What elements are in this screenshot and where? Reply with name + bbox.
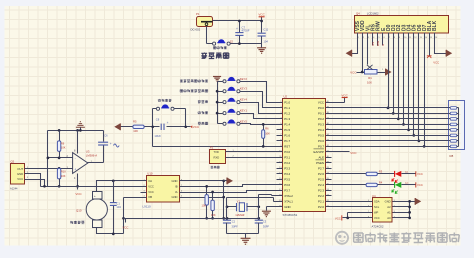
wire crystal leads xyxy=(227,206,259,208)
svg-text:KEY4: KEY4 xyxy=(240,98,248,102)
wire P0.4 row xyxy=(332,129,449,131)
ground symbol (op-amp rail, inverted) xyxy=(76,122,85,127)
svg-text:2: 2 xyxy=(363,37,364,39)
label key-name (chinese) xyxy=(180,79,183,82)
wire P0.6 row xyxy=(332,140,449,142)
wire VSS to gnd arrow xyxy=(352,39,358,54)
wire IB to P3.6 xyxy=(185,185,277,187)
svg-text:R8: R8 xyxy=(450,154,454,158)
LED D1 red xyxy=(394,171,396,177)
svg-text:U3: U3 xyxy=(86,150,90,154)
wire P0.5 row xyxy=(332,135,449,137)
svg-text:4: 4 xyxy=(373,37,374,39)
power port VCC (top rail) xyxy=(259,16,265,18)
wire KEY5 to P1.4 xyxy=(240,124,277,125)
power port GND arrow (U10) xyxy=(227,178,233,185)
svg-text:P3.0: P3.0 xyxy=(284,150,290,154)
wire Q2 GND down to rail xyxy=(25,174,41,187)
resistor R8-5 xyxy=(450,129,457,132)
resistor R8-4 xyxy=(450,123,457,126)
wire RST net to MCU pin 9 xyxy=(153,146,277,148)
svg-text:P0.6: P0.6 xyxy=(318,139,324,143)
svg-text:STC89C51: STC89C51 xyxy=(283,213,298,217)
wire P0.7 row xyxy=(332,146,449,148)
resistor R8-6 xyxy=(450,134,457,137)
svg-text:KEY3: KEY3 xyxy=(240,87,248,91)
svg-text:VCC: VCC xyxy=(417,183,423,187)
svg-text:P1.7: P1.7 xyxy=(284,139,290,143)
svg-text:EA/VPP: EA/VPP xyxy=(314,150,325,154)
svg-text:VCC: VCC xyxy=(433,61,439,65)
wire VL to wiper xyxy=(367,39,369,65)
speaker glyph xyxy=(114,144,120,147)
svg-text:LM386-A: LM386-A xyxy=(86,154,97,158)
svg-text:P3.2: P3.2 xyxy=(284,161,290,165)
wire GND long rail xyxy=(124,218,259,220)
pushbutton reset (display countdown key) xyxy=(156,107,159,110)
wire motor bottom to OB xyxy=(97,198,141,234)
svg-text:L9110: L9110 xyxy=(143,204,151,208)
wire P0.0 row xyxy=(332,107,449,109)
wire R/W stub xyxy=(377,39,379,46)
svg-text:BLK: BLK xyxy=(432,20,438,31)
resistor R10 10K xyxy=(57,168,60,179)
wire RS stub xyxy=(372,39,374,46)
wire P2.6 to R3 xyxy=(332,173,367,175)
wire analog left rail xyxy=(48,131,73,187)
wire RXD to P3.1 xyxy=(226,157,277,159)
svg-text:Q10: Q10 xyxy=(76,209,82,213)
label 直流电机 xyxy=(70,221,73,224)
capacitor C10 4.7UF xyxy=(98,142,108,145)
MCU pin stubs xyxy=(277,103,332,207)
motor Q10 DC motor xyxy=(86,199,107,220)
crystal Y1 12MHZ xyxy=(239,203,244,212)
pushbutton KEY2 xyxy=(223,80,226,83)
svg-text:P1.1: P1.1 xyxy=(284,106,290,110)
power port VCC (U4) xyxy=(341,215,343,220)
svg-text:+: + xyxy=(236,27,238,31)
svg-text:P3.3: P3.3 xyxy=(284,166,290,170)
svg-text:P1: P1 xyxy=(196,12,200,16)
svg-text:AT24C02: AT24C02 xyxy=(372,225,384,229)
ground symbol (keys bus) xyxy=(213,77,221,82)
pushbutton KEY5 xyxy=(223,122,226,125)
label 显示倒计时键 xyxy=(158,99,161,102)
wire U4 A0-A2+GND to ground xyxy=(399,202,416,218)
svg-text:P3.1: P3.1 xyxy=(284,155,290,159)
wire R3 to D1 xyxy=(378,173,395,175)
wire P0.3 row xyxy=(332,124,449,126)
svg-text:XTAL2: XTAL2 xyxy=(284,194,293,198)
pushbutton KEY4 xyxy=(223,101,226,104)
svg-text:PSEN: PSEN xyxy=(316,161,324,165)
svg-text:P2.6: P2.6 xyxy=(318,172,324,176)
power port GND arrow (U4) xyxy=(415,198,421,205)
wire KEY4 to P1.2 xyxy=(240,103,277,114)
switch S2 (power toggle) xyxy=(213,42,216,45)
svg-text:10K: 10K xyxy=(367,80,372,84)
svg-text:VCC: VCC xyxy=(318,100,324,104)
resistor R8-7 xyxy=(450,140,457,143)
svg-text:3: 3 xyxy=(368,37,369,39)
svg-text:VCC: VCC xyxy=(17,177,23,181)
wire pot right to arrow xyxy=(378,72,387,74)
capacitor C11 104 xyxy=(258,33,266,36)
watermark text xyxy=(354,233,460,243)
svg-text:RST: RST xyxy=(284,144,290,148)
wire D1 to P0.1 xyxy=(393,39,395,114)
resistor R8-8 xyxy=(450,145,457,148)
svg-text:KEY1: KEY1 xyxy=(240,109,248,113)
svg-text:P3.6: P3.6 xyxy=(284,183,290,187)
wire E stub xyxy=(382,39,384,46)
ground symbol (crystal) xyxy=(241,238,251,244)
wire IA to P3.7 xyxy=(185,191,277,193)
wire D5 to P0.5 xyxy=(413,39,415,136)
svg-text:P1.3: P1.3 xyxy=(284,117,290,121)
svg-text:15: 15 xyxy=(430,37,432,39)
wire VIN from jack to C7/C11 top rail xyxy=(213,17,262,33)
capacitor C7 470UF electrolytic xyxy=(235,33,243,36)
EEPROM U4 AT24C02 xyxy=(373,198,393,223)
U4 pin stubs xyxy=(367,202,399,218)
wire TXD to P3.0 xyxy=(226,151,277,153)
resistor R3 xyxy=(366,172,377,175)
svg-text:LCD1602: LCD1602 xyxy=(367,12,379,16)
svg-text:VCC: VCC xyxy=(350,151,357,155)
resistor R5 10K xyxy=(133,125,144,128)
svg-text:P2.5: P2.5 xyxy=(318,177,324,181)
wire D2 to P0.2 xyxy=(398,39,400,119)
pushbutton KEY1 xyxy=(223,112,226,115)
wire D6 to P0.6 xyxy=(418,39,420,141)
svg-text:12: 12 xyxy=(414,37,416,39)
svg-text:+: + xyxy=(167,121,169,125)
svg-text:P2.4: P2.4 xyxy=(318,183,324,187)
connector P2 serial download header xyxy=(210,150,226,164)
svg-text:9: 9 xyxy=(399,37,400,39)
wire D3 to P0.3 xyxy=(403,39,405,125)
label key-name (chinese) xyxy=(198,100,201,103)
wire Q2 OUT to op-amp input 3 xyxy=(25,168,73,170)
wire op-amp pin4 to bottom rail xyxy=(77,174,79,187)
svg-text:+: + xyxy=(74,168,76,172)
svg-text:16: 16 xyxy=(435,37,437,39)
label 电源接口 xyxy=(201,53,207,59)
svg-text:VCC: VCC xyxy=(335,216,341,220)
svg-text:+: + xyxy=(110,142,112,146)
wire op-amp pin8 from VCC rail xyxy=(77,131,79,154)
wire U10 GND to ground arrow xyxy=(185,181,224,219)
wire BLK to gnd arrow xyxy=(435,39,447,54)
capacitor C8 10UF xyxy=(161,124,164,130)
resistor R4 xyxy=(366,183,377,186)
EA/VPP PSEN overlines xyxy=(314,149,325,160)
power port VCC (reset row) xyxy=(190,125,192,128)
svg-text:11: 11 xyxy=(409,37,411,39)
svg-text:P0.4: P0.4 xyxy=(318,128,324,132)
MCU U2 STC89C51 xyxy=(283,99,326,212)
svg-text:+: + xyxy=(94,194,96,198)
connector P1 DC-002 power jack xyxy=(197,17,213,27)
wire KEY2 to P1.0 xyxy=(240,82,277,103)
svg-text:P0.0: P0.0 xyxy=(318,106,324,110)
svg-text:P1.6: P1.6 xyxy=(284,133,290,137)
svg-text:P2.0: P2.0 xyxy=(318,205,324,209)
wire XTAL2 net xyxy=(259,195,277,221)
power port arrow (pot) xyxy=(386,69,392,76)
wire WP + VCC (U4) xyxy=(343,213,367,218)
wire P0.1 row xyxy=(332,113,449,115)
wire analog top VCC rail xyxy=(48,131,104,142)
power port VCC (motor rail) xyxy=(125,219,127,223)
wire MCU GND pin20 xyxy=(267,207,277,211)
svg-text:U4: U4 xyxy=(372,194,376,198)
resistor R7 10K xyxy=(205,195,208,206)
svg-text:6: 6 xyxy=(384,37,385,39)
wire reset button loop xyxy=(121,109,191,147)
wire VDD to VCC xyxy=(357,39,365,73)
svg-text:U10: U10 xyxy=(147,171,153,175)
power port GND arrow (VSS) xyxy=(346,50,352,57)
capacitor C1 104 xyxy=(113,181,115,234)
wire crystal cap bottoms xyxy=(227,234,259,239)
svg-text:13: 13 xyxy=(420,37,422,39)
svg-text:10: 10 xyxy=(404,37,406,39)
svg-text:DC-002: DC-002 xyxy=(191,28,201,32)
svg-text:KEY2: KEY2 xyxy=(240,77,248,81)
U10 pin stubs xyxy=(141,181,185,198)
wire EA/VPP to VCC xyxy=(332,151,350,153)
svg-text:P0.3: P0.3 xyxy=(318,122,324,126)
svg-text:P2.2: P2.2 xyxy=(318,194,324,198)
svg-text:VCC: VCC xyxy=(123,226,129,230)
resistor network R8 xyxy=(449,101,465,150)
wire KEY1 to P1.3 xyxy=(240,114,277,119)
resistor R6 10K (vertical) xyxy=(262,130,265,139)
capacitor C3 30PF xyxy=(255,220,263,223)
wire D0 to P0.0 xyxy=(388,39,390,108)
svg-text:U2: U2 xyxy=(284,95,288,99)
wire keys left bus xyxy=(218,82,223,124)
watermark logo xyxy=(336,232,348,244)
wire P0.2 row xyxy=(332,118,449,120)
label key-name (chinese) xyxy=(198,122,201,125)
wire KEY3 to P1.1 xyxy=(240,92,277,108)
power port GND arrow (BLK) xyxy=(446,50,452,57)
svg-text:12MHZ: 12MHZ xyxy=(235,213,244,217)
svg-text:P0.1: P0.1 xyxy=(318,111,324,115)
svg-text:VCC: VCC xyxy=(341,94,348,98)
svg-text:P0.5: P0.5 xyxy=(318,133,324,137)
svg-text:14: 14 xyxy=(425,37,427,39)
wire BLA to VCC xyxy=(429,39,431,56)
wire OA to motor top xyxy=(97,181,141,192)
svg-text:5: 5 xyxy=(378,37,379,39)
label key-name (chinese) xyxy=(198,111,201,114)
svg-text:P1.4: P1.4 xyxy=(284,122,290,126)
ground symbol (power section) xyxy=(257,48,266,53)
label key-name (chinese) xyxy=(180,90,183,93)
svg-text:Y1: Y1 xyxy=(237,199,241,203)
svg-text:P2.3: P2.3 xyxy=(318,188,324,192)
svg-text:R1: R1 xyxy=(368,76,372,80)
motor driver U10 L9110 xyxy=(147,176,180,203)
resistor R8-2 xyxy=(450,112,457,115)
power port VCC (MCU pin40) xyxy=(332,98,345,103)
wire D1 to VCC xyxy=(402,173,416,175)
wire SDA to P2.1 xyxy=(332,201,367,203)
LCD pin stubs xyxy=(358,33,435,39)
wire XTAL1 net xyxy=(227,198,277,221)
svg-text:P2: P2 xyxy=(210,145,214,149)
svg-text:P3.4: P3.4 xyxy=(284,172,290,176)
svg-text:Q2: Q2 xyxy=(11,160,15,164)
resistor R9 10K xyxy=(57,141,60,152)
svg-text:OUT: OUT xyxy=(17,167,23,171)
wire op-amp output feedback xyxy=(88,146,104,163)
pushbutton KEY3 xyxy=(223,90,226,93)
svg-text:P1.0: P1.0 xyxy=(284,100,290,104)
wire SCL to P2.0 xyxy=(332,206,367,208)
wire Q2 VCC down to rail xyxy=(25,180,45,187)
power port GND arrow (reset row) xyxy=(114,123,120,130)
LCD connector U1 LCD1602 xyxy=(355,16,449,34)
wire P2.4 to R4 xyxy=(332,184,367,186)
wire D7 to P0.7 xyxy=(424,39,426,147)
svg-text:Q4: Q4 xyxy=(356,12,360,16)
svg-text:VCC: VCC xyxy=(350,70,357,74)
potentiometer R1 10K xyxy=(365,70,378,75)
svg-text:P3.5: P3.5 xyxy=(284,177,290,181)
label 串口下载 xyxy=(211,166,213,168)
label 按动开关 xyxy=(213,46,216,49)
resistor R8-1 xyxy=(450,107,457,110)
resistor R11 10K xyxy=(211,200,214,211)
svg-text:P3.7: P3.7 xyxy=(284,188,290,192)
svg-text:KEY5: KEY5 xyxy=(240,119,248,123)
wire GND bottom rail of power section xyxy=(207,27,262,48)
svg-text:VCC: VCC xyxy=(417,172,423,176)
svg-text:P1.2: P1.2 xyxy=(284,111,290,115)
wire D2 to VCC xyxy=(402,184,416,186)
svg-text:P0.7: P0.7 xyxy=(318,144,324,148)
wire D4 to P0.4 xyxy=(408,39,410,130)
ground symbol (MCU GND) xyxy=(262,211,271,216)
svg-text:ALE: ALE xyxy=(319,155,325,159)
LED D2 green xyxy=(394,182,396,188)
svg-text:GND: GND xyxy=(17,172,23,176)
svg-text:GND: GND xyxy=(284,205,290,209)
resistor R8-3 xyxy=(450,118,457,121)
wire analog bottom rail to U10 xyxy=(41,186,147,188)
op-amp U3 LM386-A xyxy=(73,153,88,174)
svg-text:XTAL1: XTAL1 xyxy=(284,199,293,203)
svg-text:VCC: VCC xyxy=(193,125,200,129)
svg-text:P1.5: P1.5 xyxy=(284,128,290,132)
svg-text:VCC: VCC xyxy=(258,13,265,17)
capacitor C2 30PF xyxy=(223,220,231,223)
svg-text:8: 8 xyxy=(394,37,395,39)
wire R4 to D2 xyxy=(378,184,395,186)
svg-text:P2.1: P2.1 xyxy=(318,199,324,203)
svg-text:P0.2: P0.2 xyxy=(318,117,324,121)
svg-text:VCC: VCC xyxy=(75,192,82,196)
connector Q2 sensor A1244 xyxy=(11,164,25,185)
svg-text:P2.7: P2.7 xyxy=(318,166,324,170)
